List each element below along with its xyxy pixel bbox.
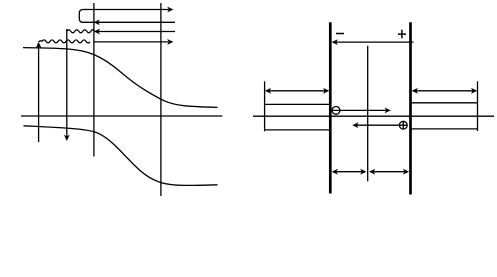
arrow A3 (left-going arrow at wavy W1) — [98, 31, 175, 33]
electron symbol (circled minus) — [332, 107, 340, 115]
central junction line — [367, 46, 369, 181]
vertical line V4 (depletion edge right) — [160, 3, 162, 196]
photon wavy line W1 — [67, 30, 95, 33]
bottom left depletion-width double arrow — [336, 171, 363, 173]
left band top line — [265, 103, 331, 105]
conduction band Ec curve — [23, 48, 218, 108]
U-turn electron path connector — [79, 10, 86, 23]
left terminator line — [264, 81, 266, 131]
long axis line — [253, 115, 494, 117]
right band bottom line — [411, 128, 478, 130]
valence band Ev curve — [24, 126, 218, 186]
arrow A4 (right-going drift arrow) — [94, 41, 169, 43]
hole symbol (circled plus) — [399, 121, 407, 129]
electron drift arrow — [332, 109, 386, 111]
arrow A2 (left-going electron arrow into U-turn) — [85, 21, 175, 23]
right band top line — [411, 102, 478, 104]
arrow A1 (top right-going electron arrow) — [85, 9, 169, 11]
minus label — [336, 33, 344, 35]
photon wavy line W2 — [39, 40, 90, 43]
plate left (thick line, negative side) — [329, 22, 332, 193]
Fermi level line EF — [21, 115, 222, 117]
vertical line V3 (depletion edge left) — [93, 3, 95, 157]
vertical arrow V2 (downward recombination arrow) — [66, 29, 68, 139]
right terminator line — [477, 81, 479, 131]
left band bottom line — [265, 129, 331, 131]
plus label — [398, 30, 406, 39]
E-field arrow (pointing left) — [336, 41, 414, 43]
right width double arrow — [416, 90, 473, 92]
bottom right depletion-width double arrow — [373, 171, 405, 173]
vertical arrow V1 (upward generation arrow) — [38, 45, 40, 143]
hole drift arrow — [357, 124, 408, 126]
plate right (thick line, positive side) — [409, 22, 412, 194]
left width double arrow — [269, 90, 326, 92]
